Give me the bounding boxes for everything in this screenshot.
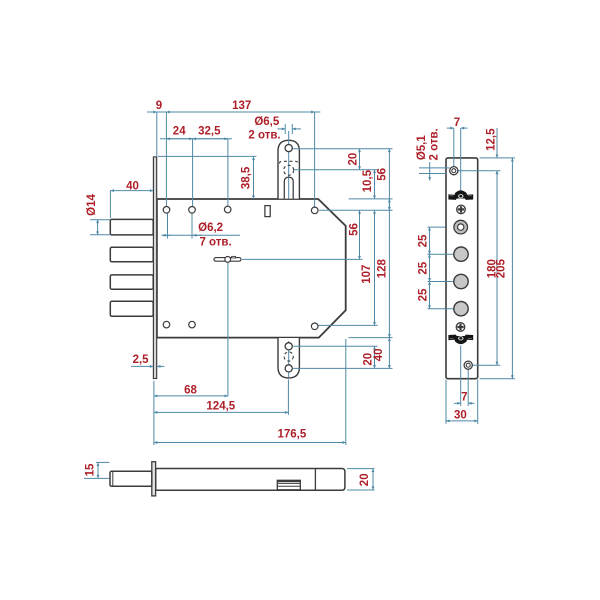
dim 24 + 32,5 line xyxy=(160,138,232,140)
svg-text:128: 128 xyxy=(377,259,389,279)
svg-text:20: 20 xyxy=(359,473,371,486)
dim Ø6,2 leader xyxy=(167,214,169,239)
svg-text:2,5: 2,5 xyxy=(133,354,150,366)
logo bottom (rotated) xyxy=(448,335,473,345)
bolt circles xyxy=(454,247,468,261)
svg-text:24: 24 xyxy=(173,126,186,138)
svg-text:124,5: 124,5 xyxy=(206,401,235,413)
keyhole vertical axis down xyxy=(227,262,229,397)
side view: grooved tab section xyxy=(277,480,300,490)
keyhole horizontal ext xyxy=(242,258,363,260)
ext line hole col 1 xyxy=(165,112,167,207)
svg-text:7: 7 xyxy=(454,117,460,129)
faceplate edge strip (front view) xyxy=(153,157,156,379)
dim 9 + 137 line xyxy=(147,111,320,113)
faceplate bottom dim 7 xyxy=(460,346,462,407)
faceplate Ø5,1 leader xyxy=(419,167,450,169)
side (bottom) view: lock case xyxy=(156,469,345,491)
small rectangular slot xyxy=(265,206,270,217)
svg-text:137: 137 xyxy=(232,100,251,112)
svg-text:40: 40 xyxy=(373,349,385,362)
ext line hole col 3 / keyhole axis xyxy=(227,139,229,206)
right-side horizontal ticks xyxy=(293,148,392,150)
svg-text:20: 20 xyxy=(348,153,360,166)
faceplate top dim 7 xyxy=(447,127,454,129)
deadbolt 4 xyxy=(110,301,153,316)
dim 180 xyxy=(496,171,498,366)
faceplate bottom dim 30 xyxy=(445,380,447,424)
svg-text:25: 25 xyxy=(418,261,430,274)
svg-text:30: 30 xyxy=(454,410,467,422)
bottom tab hole 1 xyxy=(285,343,292,350)
bottom fixing tab xyxy=(278,338,299,378)
dim 12,5 xyxy=(496,128,498,158)
faceplate (right view) xyxy=(446,158,478,379)
faceplate right ticks xyxy=(480,157,515,159)
side view dim 20 xyxy=(347,468,375,470)
screw holes row top xyxy=(163,207,170,214)
top fixing tab xyxy=(278,140,299,198)
faceplate top screw hole xyxy=(450,167,458,175)
bottom tab hole 2 xyxy=(285,365,292,372)
tab axis bottom xyxy=(288,341,290,377)
latch ring hole xyxy=(454,220,468,234)
svg-text:176,5: 176,5 xyxy=(278,429,307,441)
dim 205 xyxy=(511,158,513,379)
svg-text:40: 40 xyxy=(126,181,139,193)
dim Ø6,5 leader over top tab xyxy=(284,124,286,134)
svg-text:56: 56 xyxy=(349,223,361,236)
lock body plate (front view) xyxy=(157,199,346,338)
deadbolt 2 xyxy=(110,247,153,262)
svg-text:Ø6,2: Ø6,2 xyxy=(198,222,223,234)
svg-text:38,5: 38,5 xyxy=(241,166,253,189)
svg-text:56: 56 xyxy=(376,168,388,181)
svg-text:68: 68 xyxy=(184,385,197,397)
phillips screw top xyxy=(457,205,466,214)
top tab dashed hub xyxy=(280,161,299,175)
svg-text:205: 205 xyxy=(496,259,508,279)
side view: deadbolt xyxy=(110,471,152,486)
side view: internal separator line xyxy=(314,468,316,490)
top tab slot xyxy=(284,177,293,199)
svg-text:9: 9 xyxy=(156,100,162,112)
svg-text:7: 7 xyxy=(461,391,467,403)
svg-text:25: 25 xyxy=(418,234,430,247)
side view dim 15 xyxy=(96,461,110,463)
svg-text:7 отв.: 7 отв. xyxy=(199,237,231,249)
dim Ø14 xyxy=(90,219,111,221)
bottom dims 68 / 124,5 / 176,5 xyxy=(153,381,155,445)
logo top xyxy=(448,190,473,200)
right-side vertical dim lines xyxy=(359,149,361,170)
dim 38,5 xyxy=(158,155,256,157)
svg-text:Ø5,1: Ø5,1 xyxy=(416,135,428,161)
side view: faceplate strip xyxy=(152,462,156,496)
svg-text:32,5: 32,5 xyxy=(198,126,221,138)
svg-text:107: 107 xyxy=(361,265,373,284)
svg-text:Ø6,5: Ø6,5 xyxy=(254,116,280,128)
svg-text:Ø14: Ø14 xyxy=(86,194,98,216)
svg-text:15: 15 xyxy=(85,463,97,476)
ext line body left edge xyxy=(156,112,158,156)
deadbolt 1 xyxy=(110,219,153,235)
svg-text:2 отв.: 2 отв. xyxy=(429,128,441,160)
svg-text:10,5: 10,5 xyxy=(362,169,374,192)
svg-text:2 отв.: 2 отв. xyxy=(248,130,280,142)
dim 40 bolt length xyxy=(110,190,153,192)
ext line hole col 2 xyxy=(192,139,194,207)
ext line hole col 4 xyxy=(314,112,316,207)
faceplate 25 dims xyxy=(428,226,446,228)
deadbolt 3 xyxy=(110,275,153,289)
svg-text:25: 25 xyxy=(418,288,430,301)
ext line tab axis top xyxy=(288,131,290,199)
dim 2,5 faceplate thickness xyxy=(131,365,153,367)
faceplate bottom screw hole xyxy=(464,361,472,369)
svg-text:12,5: 12,5 xyxy=(486,128,498,151)
bottom tab dashed circle xyxy=(284,352,293,361)
top tab hole xyxy=(285,145,292,152)
phillips screw bottom xyxy=(456,323,465,332)
screw holes row bottom xyxy=(163,321,170,328)
keyhole xyxy=(214,258,241,262)
